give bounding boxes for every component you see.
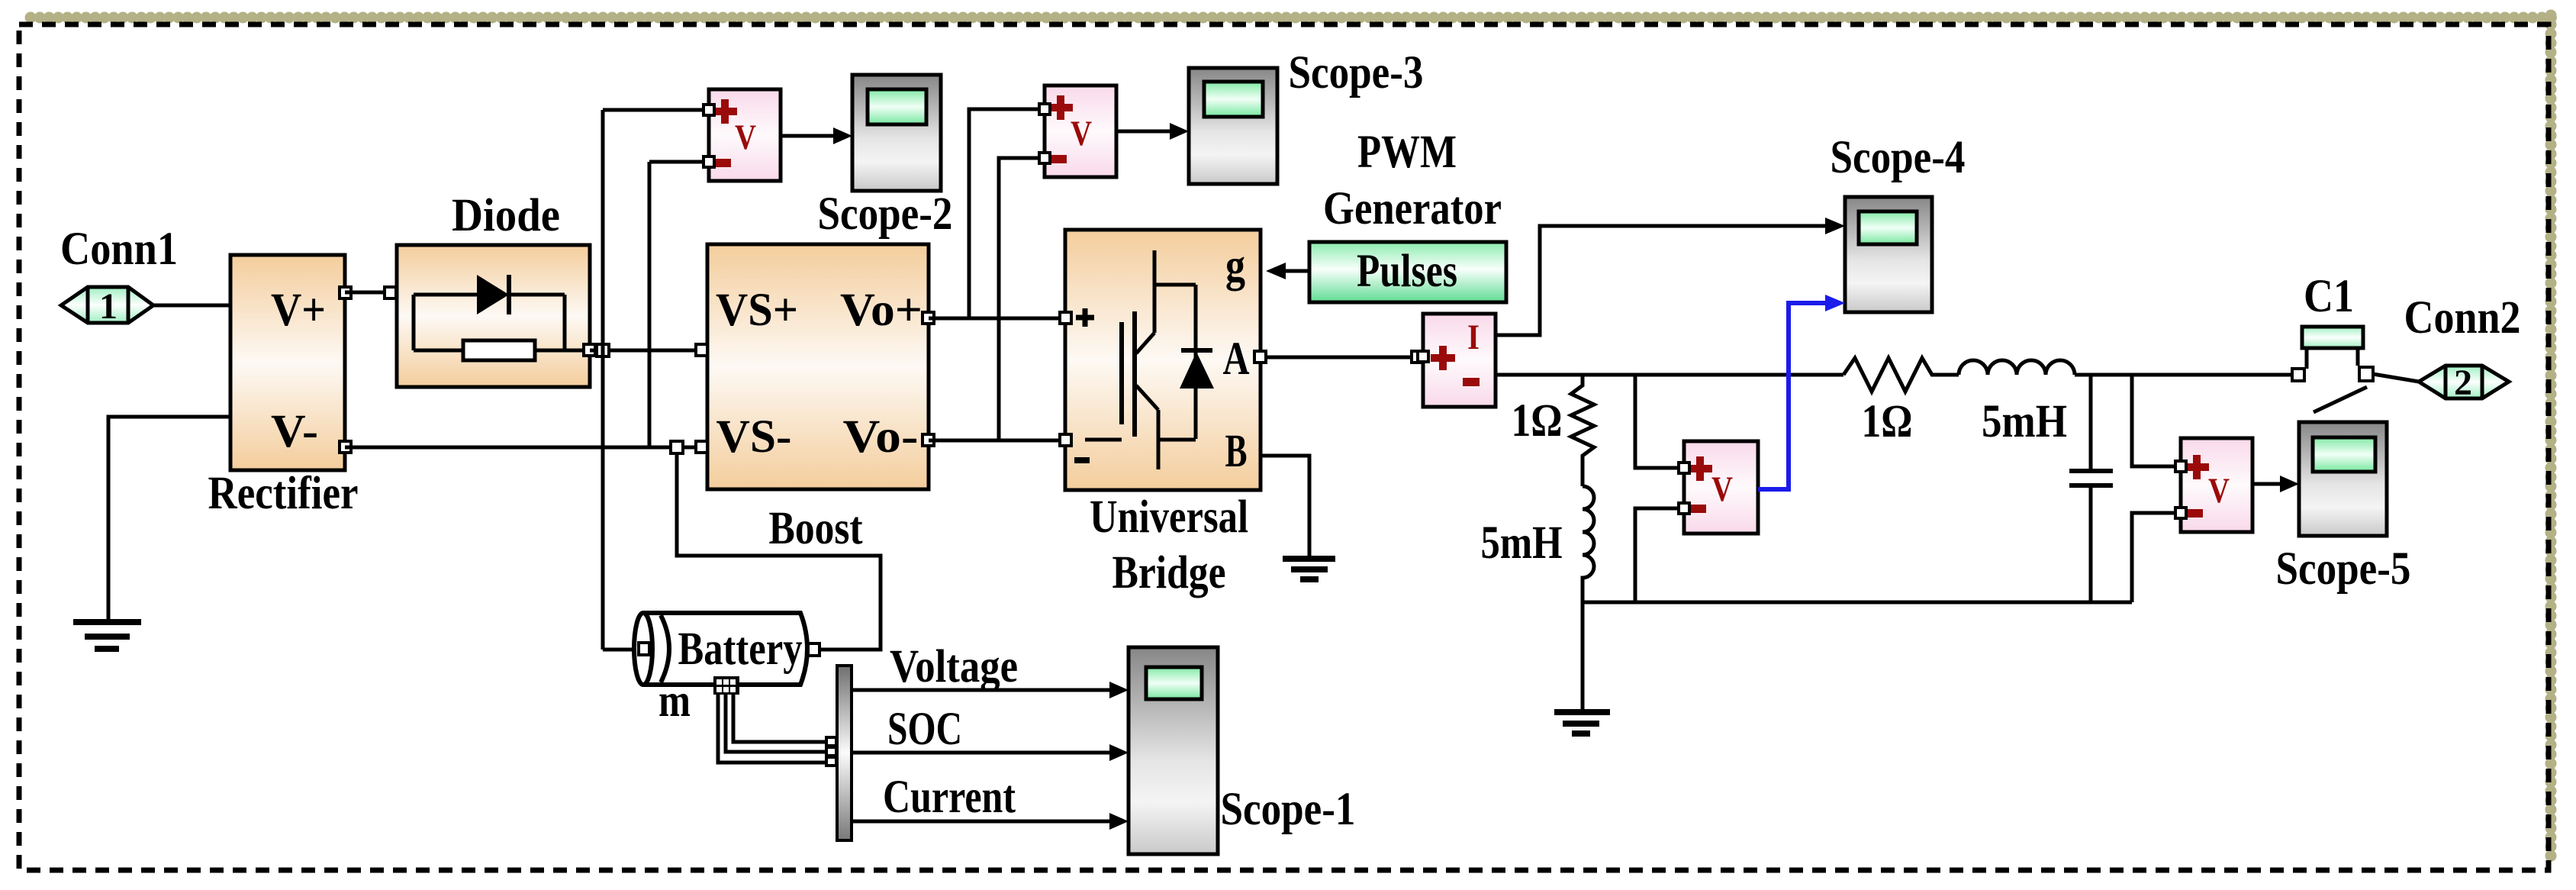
svg-text:Generator: Generator: [1323, 183, 1502, 234]
decorative olive top strip: [31, 12, 2553, 24]
svg-text:Vo-: Vo-: [843, 411, 919, 463]
port Conn1: [61, 286, 153, 327]
wire I1 measurement output to Scope-4 arrow: [1496, 218, 1845, 335]
svg-text:V: V: [735, 118, 756, 157]
node Conn1 label: [60, 224, 178, 275]
block Rectifier: [230, 255, 351, 470]
svg-text:Rectifier: Rectifier: [208, 468, 359, 519]
svg-text:VS-: VS-: [716, 411, 792, 463]
voltmeter V4 (Scope-5 measurement): [2175, 438, 2252, 532]
label Scope-3: [1289, 47, 1424, 98]
wire battery m to bus selector (3 lines): [718, 695, 828, 763]
wire V1 + input: [603, 108, 709, 112]
scope Scope-2: [852, 75, 941, 191]
svg-text:Diode: Diode: [452, 190, 560, 241]
label Scope-2: [818, 189, 953, 240]
wire V4 + input from output node: [2132, 375, 2181, 466]
svg-text:A: A: [1223, 334, 1250, 385]
wire SOC to Scope-1 arrow: [852, 744, 1129, 761]
svg-text:2: 2: [2454, 363, 2472, 403]
voltmeter V1 (Scope-2 measurement): [704, 89, 781, 181]
junction J2 on VS- net: [671, 441, 683, 453]
wire I1 output main node: [1496, 373, 1843, 377]
ground G2: [1283, 559, 1335, 579]
scope Scope-5: [2299, 422, 2387, 536]
svg-text:Voltage: Voltage: [890, 641, 1018, 692]
label Diode: [452, 190, 560, 241]
wire V2 to Scope-3 arrow: [1116, 123, 1189, 140]
wire V2 + input from Vo+ node: [969, 109, 1045, 318]
label Scope-5: [2276, 543, 2411, 595]
svg-text:I: I: [1467, 318, 1480, 357]
label battery m output: [658, 676, 691, 727]
block Pulses (PWM generator output): [1309, 242, 1506, 302]
block Diode (subsystem): [397, 245, 595, 387]
wire Bridge A to ammeter I1: [1265, 351, 1423, 363]
bottom rail wire (return net): [1583, 601, 2132, 605]
svg-text:V-: V-: [271, 406, 318, 457]
wire Rectifier V+ output to Diode input: [345, 287, 414, 298]
resistor R1 1ohm (vertical): [1571, 375, 1594, 486]
label Conn2: [2404, 292, 2521, 343]
battery B1: [634, 613, 819, 685]
svg-text:g: g: [1225, 240, 1245, 292]
svg-text:Vo+: Vo+: [840, 285, 923, 336]
scope Scope-1: [1129, 647, 1218, 854]
label L1 value 5mH: [1481, 518, 1563, 569]
wire Boost Vo- to Bridge -: [929, 439, 1065, 443]
bus selector: [826, 666, 852, 840]
svg-text:SOC: SOC: [887, 704, 962, 755]
svg-text:Current: Current: [883, 772, 1016, 823]
voltmeter V3 (Scope-4 measurement): [1679, 441, 1758, 534]
resistor R2 1ohm (horizontal): [1843, 358, 1959, 392]
wire Boost Vo+ to Bridge +: [929, 317, 1065, 321]
capacitor C2 branch: [2069, 375, 2113, 602]
wire V3 - input to bottom rail: [1635, 508, 1684, 602]
wire Battery + terminal: [603, 648, 640, 652]
svg-text:1Ω: 1Ω: [1512, 395, 1563, 447]
wire Voltage to Scope-1 arrow: [852, 682, 1129, 698]
wire L2 to breaker C1: [2075, 373, 2293, 377]
label PWM Generator: [1323, 127, 1502, 234]
svg-text:V: V: [1711, 469, 1733, 509]
diode D2 (anti-parallel) inside bridge: [1180, 350, 1214, 389]
scope Scope-4: [1845, 197, 1932, 312]
label Scope-4: [1831, 132, 1966, 183]
svg-text:m: m: [658, 676, 691, 727]
wire V3 to Scope-4 (blue): [1758, 295, 1845, 489]
svg-text:1Ω: 1Ω: [1862, 396, 1913, 447]
label signal Current: [883, 772, 1016, 823]
wire C1 to Conn2: [2373, 374, 2419, 382]
label Rectifier: [208, 468, 359, 519]
svg-text:Boost: Boost: [769, 503, 864, 554]
scope Scope-3: [1189, 68, 1277, 184]
label R2 value 1ohm: [1862, 396, 1913, 447]
breaker C1: [2292, 327, 2373, 412]
svg-text:Battery: Battery: [678, 624, 803, 675]
inductor L2 5mH (horizontal): [1959, 360, 2075, 375]
label signal SOC: [887, 704, 962, 755]
wire Current to Scope-1 arrow: [852, 813, 1129, 830]
svg-text:1: 1: [99, 286, 118, 327]
wire V4 - input to bottom rail: [2132, 513, 2181, 602]
svg-text:Pulses: Pulses: [1357, 246, 1457, 297]
wire V4 to Scope-5 arrow: [2252, 476, 2299, 492]
wire Pulses to Bridge g arrow: [1266, 263, 1309, 279]
label Boost: [769, 503, 864, 554]
label Scope-1: [1221, 784, 1356, 835]
battery m port connector: [713, 676, 739, 695]
label R1 value 1ohm: [1512, 395, 1563, 447]
inductor L1 5mH (vertical): [1583, 486, 1594, 603]
label Universal Bridge: [1090, 492, 1248, 598]
wire Rectifier V- output to Boost VS-: [345, 446, 702, 450]
wire Rectifier V- input to ground: [108, 417, 230, 622]
wire V3 + input from main node: [1635, 375, 1684, 468]
block Universal Bridge: [1060, 230, 1266, 490]
junction J1 on VS+ net: [597, 344, 609, 356]
label C1: [2304, 271, 2354, 322]
decorative olive right strip: [2545, 15, 2557, 861]
transistor IGBT icon inside bridge: [1085, 250, 1196, 469]
svg-text:Scope-2: Scope-2: [818, 189, 953, 240]
ground G1: [73, 622, 141, 649]
svg-text:PWM: PWM: [1357, 127, 1457, 178]
svg-text:Conn2: Conn2: [2404, 292, 2521, 343]
svg-text:C1: C1: [2304, 271, 2354, 322]
port Conn2: [2419, 363, 2509, 403]
block Boost (subsystem): [696, 244, 934, 489]
wire V1 - input: [649, 162, 709, 447]
svg-text:VS+: VS+: [716, 285, 798, 336]
wire VS- junction to Battery - terminal: [677, 453, 881, 650]
voltmeter V2 (Scope-3 measurement): [1039, 85, 1116, 177]
wire node VS+ vertical (V1+ sense / battery +): [601, 110, 605, 650]
svg-text:5mH: 5mH: [1982, 396, 2067, 447]
label L2 value 5mH: [1982, 396, 2067, 447]
wire V1 to Scope-2 arrow: [781, 127, 852, 144]
label signal Voltage: [890, 641, 1018, 692]
wire L1 to ground: [1581, 603, 1585, 712]
wire V2 - input from Vo- node: [999, 158, 1045, 440]
svg-text:V: V: [2208, 471, 2230, 511]
svg-text:Scope-3: Scope-3: [1289, 47, 1424, 98]
svg-text:B: B: [1225, 426, 1248, 477]
svg-text:Bridge: Bridge: [1113, 547, 1226, 598]
wire Diode output to Boost VS+: [590, 349, 702, 353]
svg-text:Universal: Universal: [1090, 492, 1248, 543]
wire Conn1 to Rectifier V+ input: [153, 304, 230, 308]
svg-text:Scope-5: Scope-5: [2276, 543, 2411, 595]
svg-text:Scope-1: Scope-1: [1221, 784, 1356, 835]
svg-text:Scope-4: Scope-4: [1831, 132, 1966, 183]
ground G3: [1554, 712, 1610, 734]
svg-text:V: V: [1071, 114, 1092, 153]
wire Bridge B to ground: [1262, 456, 1309, 559]
svg-text:Conn1: Conn1: [60, 224, 178, 275]
ammeter I1 (current measurement): [1418, 314, 1496, 407]
svg-text:5mH: 5mH: [1481, 518, 1563, 569]
svg-text:V+: V+: [271, 285, 326, 336]
